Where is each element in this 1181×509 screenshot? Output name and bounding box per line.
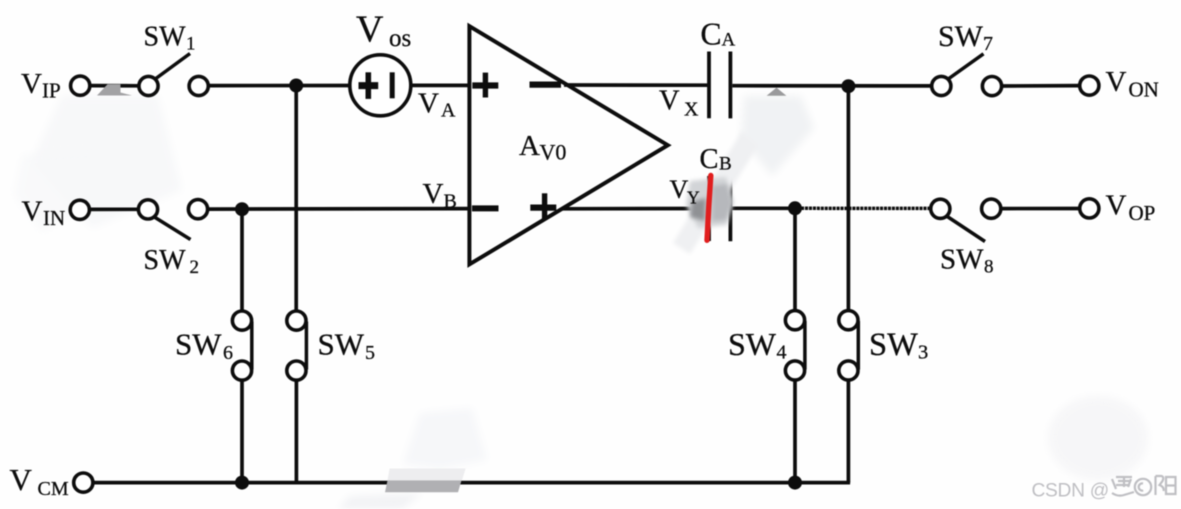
svg-text:SW: SW: [728, 326, 777, 362]
svg-text:A: A: [441, 99, 456, 121]
svg-text:7: 7: [983, 33, 993, 55]
svg-text:C: C: [700, 144, 719, 175]
node junction top-left x296: [289, 79, 303, 93]
svg-text:CSDN @: CSDN @: [1032, 481, 1109, 502]
svg-text:B: B: [444, 191, 457, 213]
svg-text:SW: SW: [940, 244, 984, 276]
capacitor CB right plate: [729, 177, 733, 241]
svg-text:SW: SW: [144, 245, 187, 276]
wire vertical SW4 lower: [793, 380, 797, 483]
switch SW5 top contact: [287, 311, 306, 330]
red annotation line over CB left plate: [707, 176, 711, 241]
smudge mid gray blob right of red line: [712, 184, 732, 221]
node junction top-right x848: [841, 79, 855, 93]
terminal VIP: [71, 76, 90, 95]
wire vertical SW3 lower: [847, 380, 851, 483]
svg-text:2: 2: [190, 257, 200, 278]
capacitor CA right plate: [729, 52, 733, 119]
svg-text:A: A: [519, 130, 540, 162]
switch SW2 right contact: [188, 200, 207, 219]
switch SW8 right contact: [982, 199, 1001, 218]
svg-text:A: A: [722, 30, 736, 51]
svg-text:V: V: [423, 178, 444, 210]
svg-text:SW: SW: [318, 327, 365, 362]
smudge bottom-center gray band over rail: [385, 480, 462, 492]
svg-text:IN: IN: [43, 206, 65, 230]
smudge light diagonal streak through CB: [673, 131, 758, 254]
svg-text:OP: OP: [1129, 201, 1156, 225]
smudge bottom-center light band: [388, 469, 466, 481]
terminal VOP: [1080, 199, 1099, 218]
switch SW5 blade: [305, 322, 309, 370]
op-amp plus input (top): [472, 82, 498, 88]
svg-text:8: 8: [984, 257, 994, 278]
switch SW1 left contact: [139, 76, 158, 95]
switch SW7 right contact: [982, 77, 1001, 96]
wire vertical SW4 upper x=795: [793, 208, 797, 310]
wire bottom: VIN terminal to SW2 circle: [90, 207, 138, 211]
wire bottom: op-amp edge to CB area: [562, 207, 702, 211]
svg-text:V: V: [10, 462, 33, 497]
svg-text:V: V: [1106, 66, 1127, 98]
switch SW2 blade: [154, 217, 191, 240]
wire bottom: SW8 to VOP terminal: [1001, 207, 1080, 211]
smudge bottom-center light blob above: [403, 408, 487, 469]
smudge light gray halo around CB plate: [686, 177, 733, 228]
op-amp output minus dash (top): [530, 81, 562, 87]
switch SW3 top contact: [839, 311, 858, 330]
svg-text:SW: SW: [938, 20, 984, 53]
svg-text:3: 3: [918, 342, 928, 364]
svg-text:V: V: [356, 9, 384, 51]
svg-text:IP: IP: [42, 79, 61, 103]
glyph yang: [1156, 476, 1176, 495]
wire vertical SW5 lower: [295, 380, 299, 483]
terminal VIN: [70, 200, 89, 219]
svg-text:os: os: [389, 25, 411, 52]
svg-text:X: X: [684, 99, 699, 121]
svg-text:SW: SW: [175, 327, 222, 362]
svg-text:V: V: [659, 86, 680, 117]
svg-text:V: V: [418, 88, 439, 120]
svg-text:V: V: [1106, 190, 1127, 222]
source Vos bar symbol: [390, 72, 395, 98]
wire vertical SW5 upper x=296: [294, 86, 298, 312]
wire bottom: SW2 to op-amp left edge, through node: [208, 207, 468, 211]
wire top: op-amp edge to CA left plate: [564, 83, 707, 87]
smudge light blob below VIP wire: [32, 95, 182, 228]
switch SW4 bottom contact: [785, 361, 804, 380]
switch SW2 left contact: [138, 200, 157, 219]
switch SW3 bottom contact: [839, 361, 858, 380]
op-amp plus output (bottom): [530, 204, 556, 210]
wire VCM rail: [93, 481, 851, 485]
capacitor CA left plate: [707, 52, 711, 119]
smudge gray triangle on top-right wire: [767, 88, 787, 96]
svg-text:6: 6: [223, 342, 233, 364]
svg-text:1: 1: [186, 34, 196, 55]
svg-text:V: V: [21, 68, 42, 100]
smudge bottom-center faint streak below: [338, 493, 422, 509]
switch SW7 blade: [948, 54, 984, 80]
svg-text:V0: V0: [540, 140, 567, 165]
wire vertical SW6 upper x=242: [240, 209, 244, 311]
switch SW1 right contact: [189, 76, 208, 95]
switch SW8 blade: [947, 216, 986, 242]
glyph at2: [1135, 479, 1151, 495]
node junction mid-right x795: [788, 201, 802, 215]
capacitor CB left plate: [707, 176, 711, 241]
glyph yi: [1112, 477, 1134, 496]
svg-text:V: V: [670, 175, 689, 204]
switch SW4 blade: [803, 321, 807, 370]
smudge artifacts group: [97, 84, 786, 492]
smudge gray trapezoid on VIP wire: [97, 84, 132, 95]
wire bottom: CB right plate to node: [732, 206, 795, 210]
wire top: VIP terminal to SW1 circle: [90, 84, 138, 88]
svg-text:ON: ON: [1129, 78, 1159, 102]
op-amp input minus dash (bottom): [472, 205, 499, 211]
switch SW7 left contact: [932, 76, 951, 95]
smudge darker patch left of red line: [690, 198, 706, 221]
svg-text:4: 4: [777, 342, 787, 364]
svg-text:B: B: [719, 154, 732, 175]
node junction rail x795: [788, 476, 802, 490]
wire top: CA right plate to SW7, through node: [732, 84, 931, 88]
source Vos circle: [350, 55, 411, 116]
watermark CSDN @yi@yang: [1032, 476, 1176, 502]
terminal VON: [1080, 76, 1099, 95]
svg-text:CM: CM: [38, 478, 69, 500]
svg-text:Y: Y: [687, 188, 700, 208]
switch SW6 blade: [250, 322, 254, 370]
smudge light blob left mid: [14, 150, 103, 232]
smudge light staircase below top-right wire: [741, 96, 814, 176]
wire top: Vos to op-amp left edge: [411, 84, 468, 88]
svg-text:V: V: [22, 196, 43, 228]
switch SW8 left contact: [931, 199, 950, 218]
wire vertical SW6 lower: [240, 380, 244, 483]
node junction mid-left x242: [235, 202, 249, 216]
switch SW6 bottom contact: [232, 361, 251, 380]
svg-text:C: C: [701, 17, 722, 52]
wire bottom dotted: node to SW8: [801, 207, 931, 211]
svg-text:SW: SW: [869, 327, 918, 363]
node junction rail x242: [235, 476, 249, 490]
wire top: SW7 to VON terminal: [1002, 84, 1081, 88]
switch SW5 bottom contact: [287, 361, 306, 380]
op-amp U1 triangle: [469, 26, 667, 264]
switch SW3 blade: [857, 321, 861, 370]
source Vos plus sign: [359, 82, 379, 89]
switch SW1 blade: [155, 54, 191, 80]
svg-text:SW: SW: [144, 22, 187, 53]
switch SW4 top contact: [785, 311, 804, 330]
switch SW6 top contact: [232, 311, 251, 330]
terminal VCM: [74, 473, 93, 492]
wire vertical SW3 upper x=848: [847, 86, 851, 311]
svg-text:5: 5: [365, 342, 375, 364]
smudge faint bottom-right blob: [1048, 396, 1148, 480]
wire top: SW1 to Vos source, through node: [209, 84, 351, 88]
